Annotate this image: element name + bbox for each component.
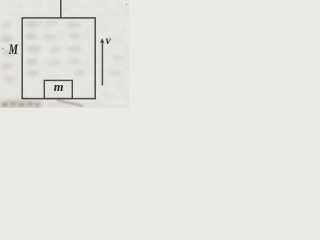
- svg-text:v: v: [106, 35, 112, 47]
- svg-text:m: m: [54, 80, 64, 94]
- svg-text:M: M: [8, 42, 19, 58]
